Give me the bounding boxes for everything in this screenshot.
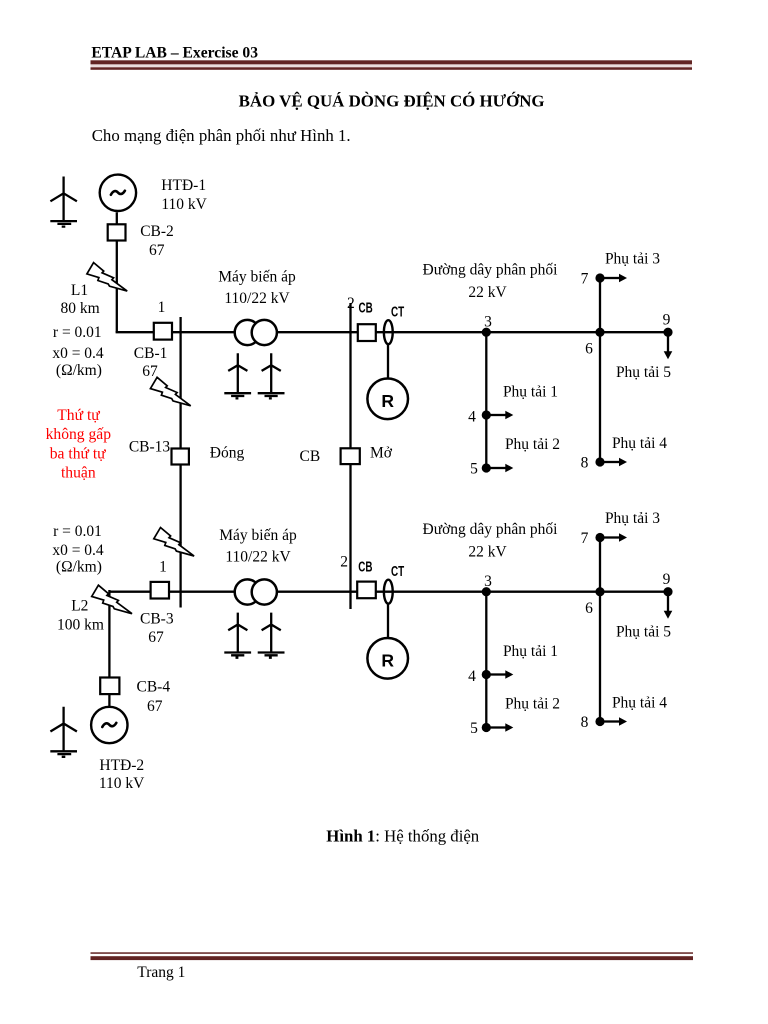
svg-text:L1: L1 (71, 282, 88, 299)
svg-text:Phụ tải 1: Phụ tải 1 (503, 643, 558, 660)
svg-text:67: 67 (142, 363, 158, 380)
svg-text:CB: CB (358, 559, 372, 575)
svg-text:CB-1: CB-1 (134, 345, 168, 362)
svg-text:Máy biến áp: Máy biến áp (219, 527, 297, 544)
svg-text:Phụ tải 5: Phụ tải 5 (616, 364, 671, 381)
svg-text:CT: CT (391, 305, 404, 321)
svg-text:(Ω/km): (Ω/km) (56, 559, 102, 576)
svg-text:4: 4 (468, 409, 476, 426)
svg-text:x0 = 0.4: x0 = 0.4 (52, 542, 104, 559)
svg-text:Đường dây phân phối: Đường dây phân phối (423, 262, 559, 279)
svg-text:4: 4 (468, 668, 476, 685)
svg-text:1: 1 (158, 299, 166, 316)
svg-text:Hình 1: Hệ thống điện: Hình 1: Hệ thống điện (326, 827, 480, 846)
svg-text:110 kV: 110 kV (99, 775, 145, 792)
svg-text:CB: CB (359, 300, 373, 316)
svg-text:5: 5 (470, 461, 478, 478)
svg-text:110/22 kV: 110/22 kV (224, 290, 290, 307)
svg-text:67: 67 (149, 242, 165, 259)
svg-text:Phụ tải 3: Phụ tải 3 (605, 510, 660, 527)
svg-text:Trang 1: Trang 1 (137, 964, 185, 981)
svg-text:ETAP LAB – Exercise 03: ETAP LAB – Exercise 03 (91, 44, 258, 61)
svg-text:1: 1 (159, 559, 167, 576)
svg-text:6: 6 (585, 340, 593, 357)
svg-text:22 kV: 22 kV (468, 284, 507, 301)
svg-text:22 kV: 22 kV (468, 544, 507, 561)
svg-text:9: 9 (663, 311, 671, 328)
svg-text:r = 0.01: r = 0.01 (53, 324, 102, 341)
svg-text:5: 5 (470, 720, 478, 737)
svg-text:110/22 kV: 110/22 kV (225, 549, 291, 566)
svg-text:2: 2 (340, 554, 348, 571)
svg-text:7: 7 (581, 530, 589, 547)
svg-text:Phụ tải 4: Phụ tải 4 (612, 694, 667, 711)
svg-text:(Ω/km): (Ω/km) (56, 362, 102, 379)
svg-text:L2: L2 (71, 597, 88, 614)
svg-text:2: 2 (347, 295, 355, 312)
svg-text:80 km: 80 km (61, 300, 100, 317)
svg-text:8: 8 (581, 455, 589, 472)
svg-text:Thứ tự: Thứ tự (57, 407, 100, 424)
svg-text:100 km: 100 km (57, 617, 104, 634)
svg-text:CB: CB (300, 448, 321, 465)
svg-text:8: 8 (581, 714, 589, 731)
svg-text:CB-2: CB-2 (140, 223, 174, 240)
svg-text:ba thứ tự: ba thứ tự (50, 446, 106, 463)
svg-text:Phụ tải 1: Phụ tải 1 (503, 384, 558, 401)
svg-text:HTĐ-2: HTĐ-2 (99, 757, 144, 774)
svg-text:67: 67 (147, 698, 163, 715)
svg-text:HTĐ-1: HTĐ-1 (161, 177, 206, 194)
svg-text:CB-4: CB-4 (137, 679, 171, 696)
svg-text:6: 6 (585, 600, 593, 617)
svg-text:BẢO VỆ QUÁ DÒNG ĐIỆN CÓ HƯỚNG: BẢO VỆ QUÁ DÒNG ĐIỆN CÓ HƯỚNG (239, 92, 545, 111)
svg-text:CT: CT (391, 564, 404, 580)
svg-text:Đường dây phân phối: Đường dây phân phối (423, 521, 559, 538)
svg-text:Phụ tải 3: Phụ tải 3 (605, 251, 660, 268)
svg-text:3: 3 (484, 313, 492, 330)
svg-text:thuận: thuận (61, 465, 96, 482)
svg-text:Phụ tải 5: Phụ tải 5 (616, 623, 671, 640)
svg-text:R: R (381, 391, 394, 411)
svg-text:Cho mạng điện phân phối như Hì: Cho mạng điện phân phối như Hình 1. (92, 126, 351, 145)
svg-text:Đóng: Đóng (210, 445, 245, 462)
svg-text:không gấp: không gấp (46, 426, 112, 443)
svg-text:67: 67 (148, 629, 164, 646)
svg-text:Phụ tải 4: Phụ tải 4 (612, 435, 667, 452)
svg-text:Phụ tải 2: Phụ tải 2 (505, 436, 560, 453)
svg-text:R: R (381, 651, 394, 671)
svg-text:Máy biến áp: Máy biến áp (218, 269, 296, 286)
svg-text:9: 9 (663, 571, 671, 588)
svg-text:r = 0.01: r = 0.01 (53, 523, 102, 540)
svg-text:CB-3: CB-3 (140, 611, 174, 628)
svg-text:x0 = 0.4: x0 = 0.4 (52, 345, 104, 362)
svg-text:Mở: Mở (370, 445, 393, 462)
svg-text:CB-13: CB-13 (129, 439, 171, 456)
svg-text:3: 3 (484, 573, 492, 590)
svg-text:110 kV: 110 kV (161, 196, 207, 213)
svg-text:7: 7 (581, 271, 589, 288)
svg-text:Phụ tải 2: Phụ tải 2 (505, 695, 560, 712)
